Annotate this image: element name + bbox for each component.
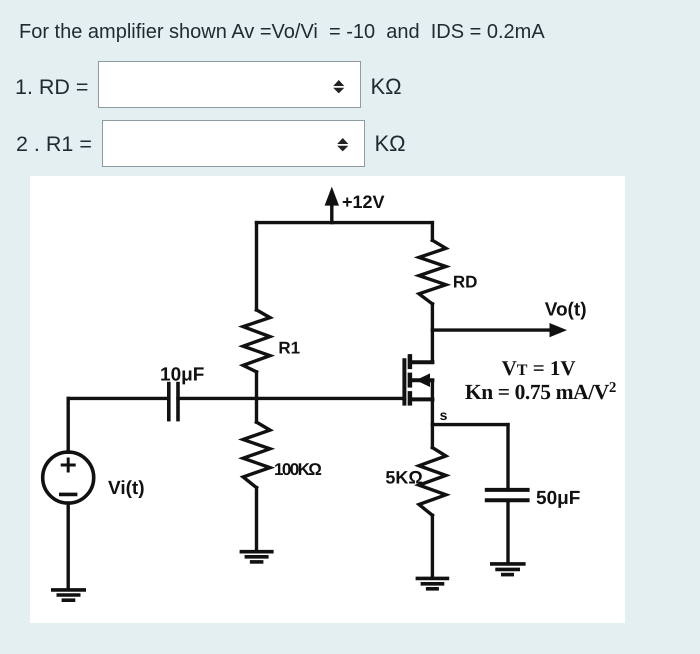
svg-text:5KΩ: 5KΩ: [385, 467, 422, 487]
svg-text:Vo(t): Vo(t): [545, 300, 587, 321]
svg-text:RD: RD: [453, 272, 478, 291]
svg-text:R1: R1: [278, 338, 300, 357]
svg-text:10μF: 10μF: [160, 365, 204, 386]
svg-text:s: s: [440, 407, 448, 423]
svg-text:100KΩ: 100KΩ: [274, 460, 321, 479]
svg-text:+12V: +12V: [342, 192, 385, 212]
svg-text:VT = 1V: VT = 1V: [502, 356, 576, 380]
svg-text:Vi(t): Vi(t): [108, 478, 145, 499]
svg-text:Kn = 0.75 mA/V2: Kn = 0.75 mA/V2: [465, 380, 616, 404]
svg-text:50μF: 50μF: [536, 488, 580, 509]
